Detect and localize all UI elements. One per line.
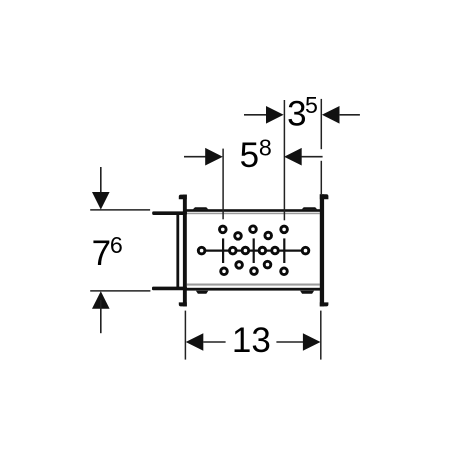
right rail bottom hook: [320, 302, 329, 306]
hole ring B1: [235, 233, 242, 240]
hole ring E1: [221, 268, 228, 275]
plate bottom bump left: [196, 291, 208, 294]
right rail bar: [320, 194, 324, 306]
hole ring E3: [281, 268, 288, 275]
hole ring C1: [198, 247, 205, 254]
dim 3.5 right arrow: [322, 106, 340, 124]
plate top edge gray line: [187, 213, 320, 215]
bottom wall arm: [152, 287, 187, 291]
hole ring D1: [236, 262, 243, 269]
dim 13 right tail: [276, 341, 303, 343]
dim 5.8 right tail: [301, 156, 322, 158]
extension line x284 for dims 3.5/5.8: [283, 100, 285, 220]
extension line x185 for dim 13: [184, 311, 186, 360]
plate bottom bump right: [300, 291, 314, 294]
dim 7.6 down arrow: [92, 192, 110, 210]
cross mark 1: [222, 238, 224, 263]
svg-text:8: 8: [259, 135, 272, 161]
dim 5.8 right arrow: [284, 148, 302, 166]
cross mark 2: [253, 238, 255, 263]
plate top bump left: [193, 207, 209, 209]
top wall arm: [152, 211, 187, 215]
cross mark 3: [283, 238, 285, 263]
dim 7.6 upper line: [100, 167, 102, 200]
extension line x321 upper segment: [320, 99, 322, 149]
hole ring C5: [272, 247, 279, 254]
plate top edge dark line: [186, 209, 320, 212]
extension line x223 for dim 5.8: [222, 149, 224, 220]
dim 3.5 right tail: [340, 114, 360, 116]
plate top bump right: [302, 207, 318, 209]
svg-text:6: 6: [110, 232, 123, 258]
svg-text:5: 5: [305, 92, 318, 118]
dim 13 right arrow: [303, 333, 321, 351]
arm crossbar: [176, 213, 179, 289]
dim 5.8 left tail: [184, 156, 206, 158]
hole ring A1: [220, 226, 227, 233]
hole ring C3: [242, 247, 249, 254]
hole ring C2: [230, 247, 237, 254]
dim 7.6 lower line: [100, 300, 102, 333]
extension line y291 for dim 7.6: [90, 290, 150, 292]
hole ring A2: [250, 226, 257, 233]
left rail bottom hook: [179, 302, 187, 306]
dim 3.5 left arrow: [266, 106, 284, 124]
hole centerline: [202, 250, 306, 252]
left rail bar: [183, 195, 187, 307]
dim 13 left tail: [203, 341, 225, 343]
hole ring C4: [259, 247, 266, 254]
plate bottom edge dark line: [186, 288, 320, 291]
left rail top hook: [179, 195, 187, 200]
svg-text:5: 5: [240, 136, 259, 175]
extension line x321 lower segment: [320, 161, 322, 194]
svg-text:7: 7: [92, 234, 111, 273]
dim 13 left arrow: [186, 333, 204, 351]
extension line y210 for dim 7.6: [90, 209, 150, 211]
hole ring A3: [281, 226, 288, 233]
hole ring C6: [302, 247, 309, 254]
hole ring E2: [251, 268, 258, 275]
hole ring B2: [265, 232, 272, 239]
svg-text:3: 3: [287, 95, 306, 134]
hole ring D2: [264, 261, 271, 268]
right rail top hook: [320, 194, 329, 199]
extension line x321 for dim 13: [320, 311, 322, 360]
dim 3.5 left tail: [244, 114, 266, 116]
dim 5.8 left arrow: [205, 148, 223, 166]
plate bottom edge gray line: [187, 284, 320, 286]
svg-text:13: 13: [232, 321, 271, 360]
dim 7.6 up arrow: [92, 291, 110, 309]
